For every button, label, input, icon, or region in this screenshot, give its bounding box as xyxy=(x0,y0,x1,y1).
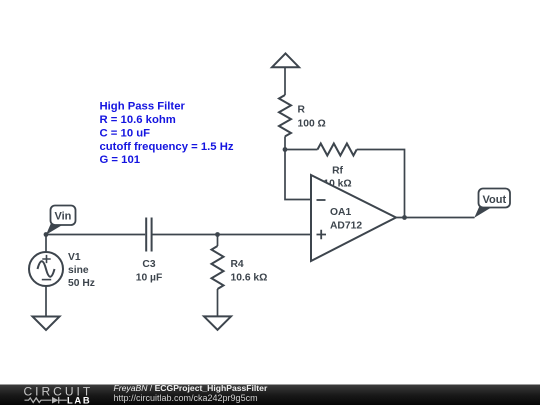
footer text xyxy=(114,383,268,403)
junction feedback node xyxy=(283,147,288,152)
svg-text:sine: sine xyxy=(68,265,89,276)
label C3 xyxy=(136,259,163,283)
svg-text:Vin: Vin xyxy=(54,211,71,223)
svg-text:FreyaBN / ECGProject_HighPassF: FreyaBN / ECGProject_HighPassFilter xyxy=(114,383,268,393)
svg-text:C3: C3 xyxy=(142,259,155,270)
svg-text:High Pass Filter: High Pass Filter xyxy=(100,101,186,113)
svg-text:10 µF: 10 µF xyxy=(136,272,163,283)
label Rf xyxy=(323,166,351,190)
capacitor C3 xyxy=(146,218,151,252)
svg-text:100 Ω: 100 Ω xyxy=(298,119,326,130)
svg-text:Rf: Rf xyxy=(332,166,343,177)
svg-text:http://circuitlab.com/cka242pr: http://circuitlab.com/cka242pr9g5cm xyxy=(114,393,258,403)
svg-text:G = 101: G = 101 xyxy=(100,154,141,166)
power symbol VCC xyxy=(272,53,299,67)
op-amp OA1 xyxy=(311,175,396,261)
svg-text:cutoff frequency = 1.5 Hz: cutoff frequency = 1.5 Hz xyxy=(100,141,234,153)
svg-text:R4: R4 xyxy=(231,259,244,270)
wire: Rf right to output riser xyxy=(357,150,405,218)
wire: R4 top stub xyxy=(217,235,219,247)
label OA1 AD712 xyxy=(330,207,362,231)
ground (V1) xyxy=(33,317,60,331)
wire: main input net (Vin to op-amp +) xyxy=(46,234,311,236)
svg-text:50 Hz: 50 Hz xyxy=(68,278,95,289)
node label Vout xyxy=(474,189,510,218)
svg-text:AD712: AD712 xyxy=(330,220,362,231)
annotation text (blue) xyxy=(100,101,234,166)
resistor Rf xyxy=(318,144,357,156)
label R xyxy=(298,105,326,130)
svg-text:OA1: OA1 xyxy=(330,207,351,218)
junction R4 node xyxy=(215,232,220,237)
V1 plus mark xyxy=(42,255,50,263)
svg-text:V1: V1 xyxy=(68,252,81,263)
svg-text:Vout: Vout xyxy=(482,194,506,206)
V1 minus mark xyxy=(42,279,51,281)
resistor R4 xyxy=(212,246,224,289)
svg-text:10.6 kΩ: 10.6 kΩ xyxy=(231,272,268,283)
svg-text:C = 10 uF: C = 10 uF xyxy=(100,127,151,139)
wire: Vin node to V1 top xyxy=(45,235,47,253)
junction output node xyxy=(402,215,407,220)
wire: feedback node to op-amp minus input xyxy=(285,150,311,200)
wire: R bottom to feedback node xyxy=(284,136,286,149)
node label Vin xyxy=(46,206,76,235)
footer bar xyxy=(0,385,540,405)
wire: op-amp output to Vout xyxy=(396,217,475,219)
wire: feedback node to Rf left xyxy=(285,149,318,151)
label R4 xyxy=(231,259,268,283)
label V1 sine 50 Hz xyxy=(68,252,95,289)
footer logo CIRCUIT LAB xyxy=(24,385,94,405)
ground (R4) xyxy=(204,316,231,329)
wire: VCC to resistor R top xyxy=(284,67,286,95)
svg-text:R: R xyxy=(298,105,306,116)
junction Vin node xyxy=(44,232,49,237)
voltage source V1 xyxy=(29,252,63,286)
op-amp plus pin mark xyxy=(317,230,327,240)
V1 sine mark xyxy=(38,261,55,276)
wire: R4 bottom to ground xyxy=(217,289,219,316)
wire: V1 bottom to ground xyxy=(45,286,47,317)
svg-text:R = 10.6 kohm: R = 10.6 kohm xyxy=(100,114,176,126)
resistor R xyxy=(279,95,291,136)
svg-text:LAB: LAB xyxy=(67,395,91,405)
op-amp minus pin mark xyxy=(317,199,326,201)
